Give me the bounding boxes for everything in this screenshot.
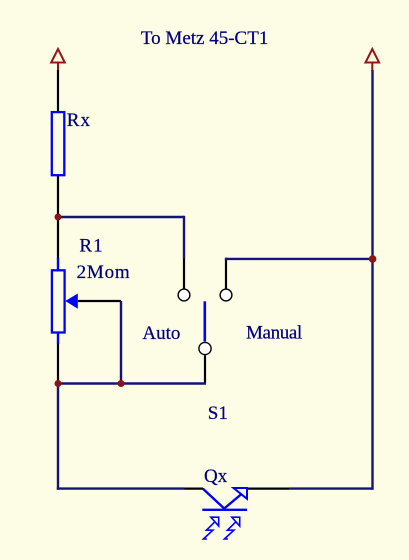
svg-text:Manual: Manual [246,322,302,343]
svg-text:Rx: Rx [67,110,91,131]
svg-text:R1: R1 [79,235,103,256]
svg-text:Qx: Qx [204,466,228,487]
svg-text:2Mom: 2Mom [77,262,131,283]
svg-text:Auto: Auto [142,323,180,344]
svg-text:To Metz 45-CT1: To Metz 45-CT1 [141,28,268,49]
svg-text:S1: S1 [208,403,228,424]
